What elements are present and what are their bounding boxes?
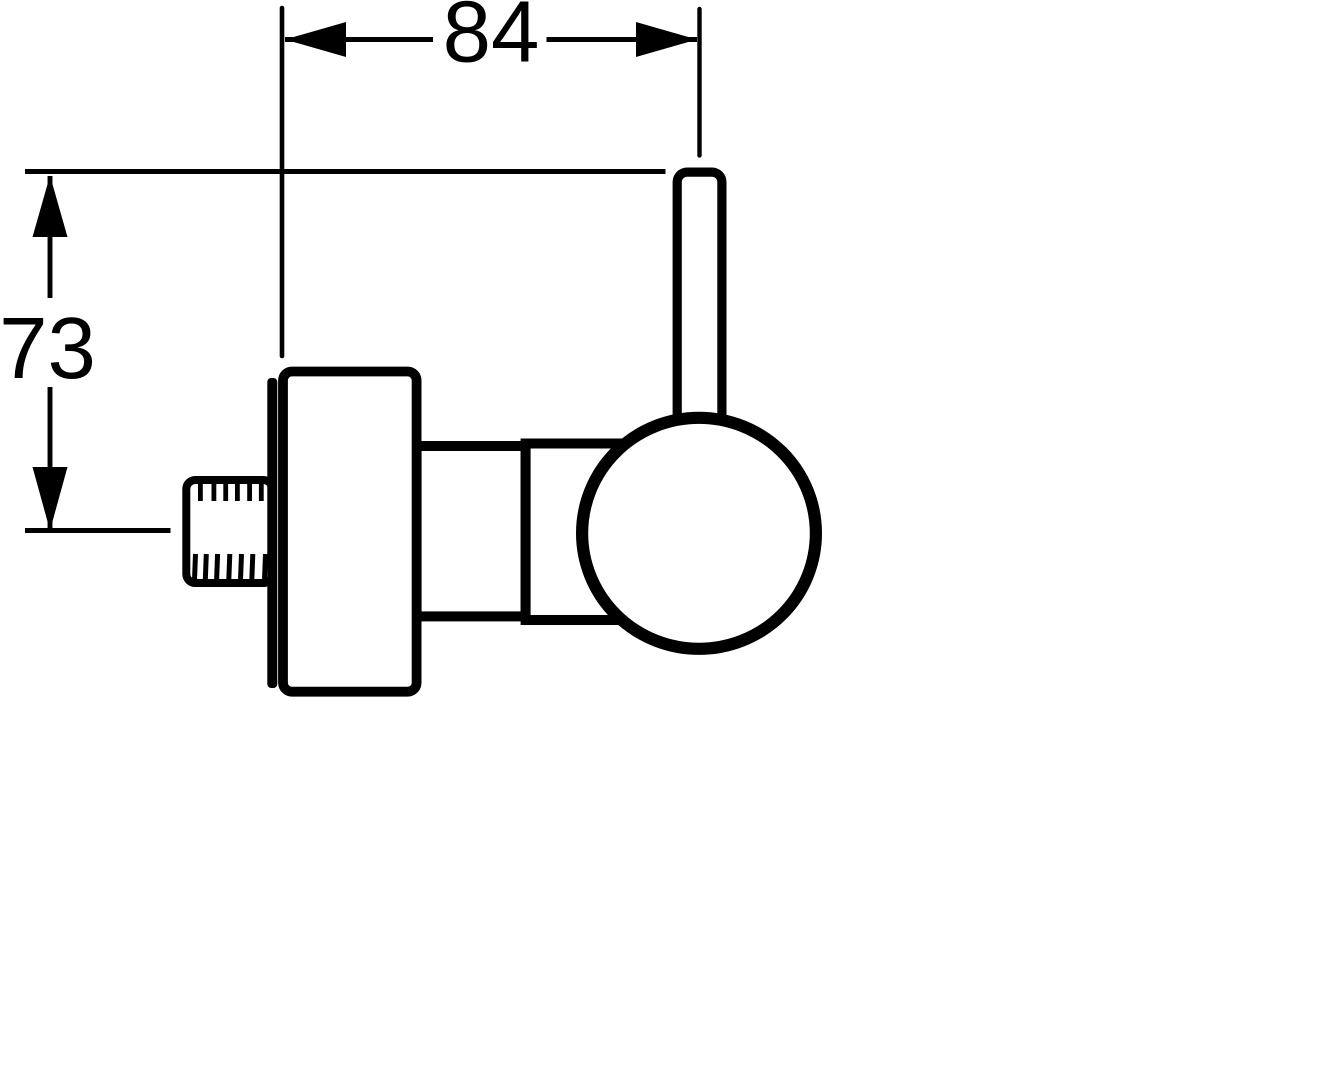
reference line bottom (dim 73) bbox=[25, 528, 171, 533]
valve body ring section bbox=[526, 444, 654, 621]
reference line top (dim 73) bbox=[25, 169, 666, 174]
escutcheon flange bbox=[283, 372, 417, 692]
extension line right (dim 84) bbox=[697, 9, 701, 156]
wall seal plate bbox=[267, 378, 277, 688]
handle body circle bbox=[582, 418, 816, 649]
arrowhead 84 left bbox=[285, 22, 346, 57]
dimension line 73 upper segment bbox=[48, 176, 53, 298]
svg-text:84: 84 bbox=[443, 0, 540, 81]
arrowhead 73 up bbox=[33, 176, 68, 238]
dimension line 84 right segment bbox=[547, 37, 698, 42]
arrowhead 84 right bbox=[636, 22, 697, 57]
lever handle bbox=[677, 172, 722, 502]
thread ticks bottom bbox=[195, 554, 266, 580]
dimension line 84 left segment bbox=[285, 37, 433, 42]
thread ticks top bbox=[200, 484, 261, 501]
valve body neck section bbox=[417, 446, 526, 616]
threaded inlet stub bbox=[186, 480, 272, 583]
dimension line 73 lower segment bbox=[48, 387, 53, 530]
arrowhead 73 down bbox=[33, 467, 68, 531]
extension line left (dim 84) bbox=[280, 8, 285, 356]
svg-text:73: 73 bbox=[0, 300, 96, 397]
